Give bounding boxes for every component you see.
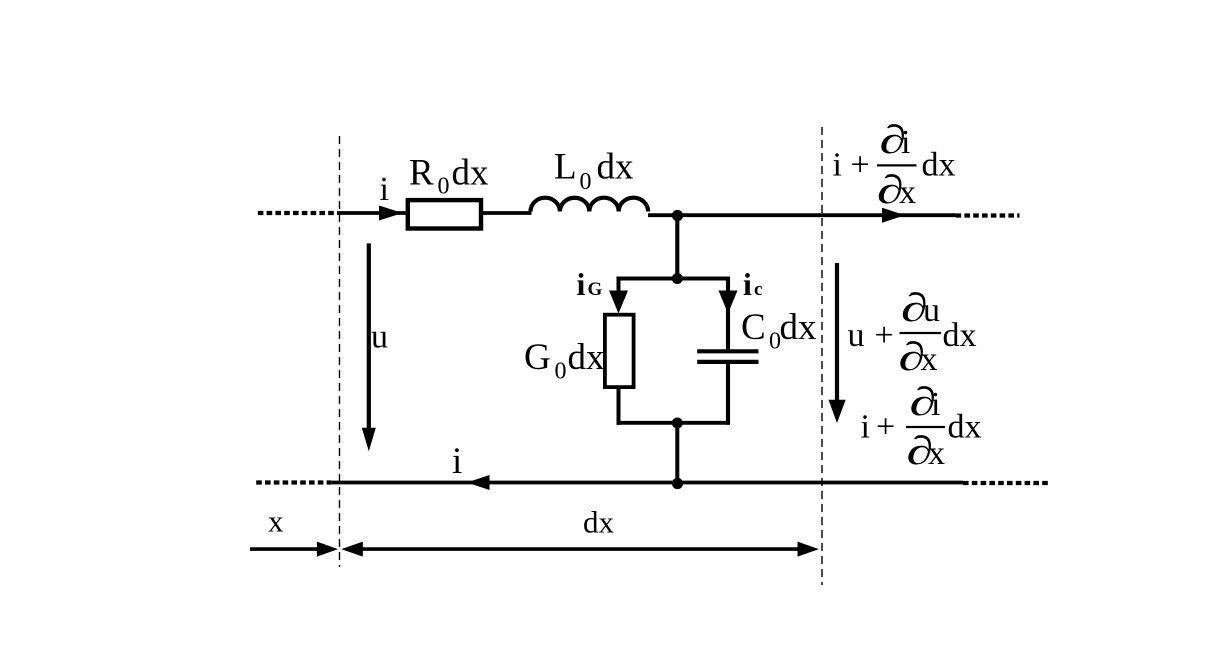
resistor G1 = G0dx (shunt conductance) [605, 315, 634, 387]
wire: resistor to inductor [481, 211, 532, 215]
label u + du/dx dx (right voltage) [848, 286, 977, 379]
svg-text:0: 0 [438, 174, 450, 200]
svg-text:dx: dx [943, 317, 977, 354]
wire: inductor to node A and on to right boundary [648, 213, 956, 217]
wire: shunt top horizontal rail [617, 277, 731, 281]
resistor R1 = R0dx (series) [408, 200, 481, 228]
wire: G branch lower lead [617, 388, 621, 425]
label ic [743, 266, 762, 302]
svg-text:i: i [452, 441, 462, 482]
svg-text:i: i [380, 171, 389, 208]
svg-text:dx: dx [568, 337, 606, 378]
svg-text:dx: dx [780, 307, 818, 348]
svg-text:C: C [741, 307, 766, 348]
svg-text:i: i [577, 266, 586, 302]
inductor L1 = L0dx (series) [531, 198, 649, 212]
node: shunt bottom junction dot [672, 418, 683, 429]
svg-text:+: + [876, 409, 895, 446]
svg-text:dx: dx [597, 147, 635, 188]
value label C0dx [741, 307, 817, 355]
wire: bottom line right dashed segment [963, 481, 1050, 485]
value label L0dx [554, 147, 634, 196]
svg-text:L: L [554, 147, 577, 188]
node A dot (top wire junction) [672, 210, 683, 221]
arrow dx (double-headed dimension arrow) [341, 542, 819, 557]
svg-text:G: G [524, 337, 551, 378]
label i + di/dx dx (top right) [833, 118, 956, 212]
wire: bottom line left dashed segment [256, 480, 331, 484]
svg-text:i: i [931, 386, 940, 423]
wire: shunt bottom horizontal rail [617, 421, 731, 425]
capacitor C1 = C0dx top plate [697, 349, 758, 353]
wire: top line left dashed segment [258, 211, 338, 215]
svg-text:dx: dx [948, 409, 982, 446]
wire: shunt branch down to bottom line [675, 423, 679, 483]
svg-text:x: x [928, 435, 945, 472]
wire: bottom line solid [331, 481, 963, 485]
arrow x (dimension arrow to boundary) [250, 542, 338, 557]
svg-text:0: 0 [555, 359, 567, 385]
svg-text:dx: dx [583, 505, 615, 540]
svg-text:i: i [861, 409, 870, 446]
wire: node A down to shunt split [675, 216, 679, 279]
svg-text:+: + [875, 317, 894, 354]
svg-text:dx: dx [922, 147, 956, 184]
wire: G branch upper lead [617, 277, 621, 299]
arrowhead: bottom return current i (leftward) [467, 475, 490, 490]
arrowhead: current ic [719, 291, 738, 314]
svg-text:c: c [754, 279, 762, 300]
node boundary x: left vertical dashed line [339, 136, 341, 567]
svg-text:x: x [899, 174, 916, 211]
wire: C branch lower lead [726, 362, 730, 425]
node: bottom line junction dot [672, 478, 683, 489]
arrow u (left voltage, downward) [362, 243, 376, 451]
node boundary x+dx: right vertical dashed line [821, 127, 823, 585]
wire: top line from boundary to resistor R0dx [338, 211, 407, 215]
svg-text:x: x [921, 341, 938, 378]
svg-text:i +: i + [833, 147, 870, 184]
arrowhead: current iG [609, 291, 628, 314]
label iG [577, 266, 603, 302]
arrowhead: current i+di leaving (top right) [882, 208, 905, 223]
svg-text:G: G [588, 279, 603, 300]
label i + di/dx dx (lower right) [861, 380, 982, 473]
value label R0dx [409, 153, 489, 200]
value label G0dx [524, 337, 605, 385]
svg-text:i: i [743, 266, 752, 302]
svg-text:u: u [848, 317, 865, 354]
svg-text:0: 0 [580, 169, 592, 195]
capacitor C1 = C0dx bottom plate [697, 360, 758, 364]
arrow u+du (right voltage, downward) [829, 263, 846, 423]
svg-text:dx: dx [452, 153, 490, 194]
svg-text:i: i [901, 124, 910, 161]
node: shunt top junction dot [672, 273, 683, 284]
svg-text:R: R [409, 153, 434, 194]
wire: C branch upper lead [726, 277, 730, 351]
arrowhead: current i entering (top left) [379, 206, 403, 221]
svg-text:u: u [371, 319, 388, 356]
svg-text:u: u [923, 292, 940, 329]
svg-text:x: x [268, 504, 284, 539]
wire: top line right dashed segment [956, 213, 1020, 217]
